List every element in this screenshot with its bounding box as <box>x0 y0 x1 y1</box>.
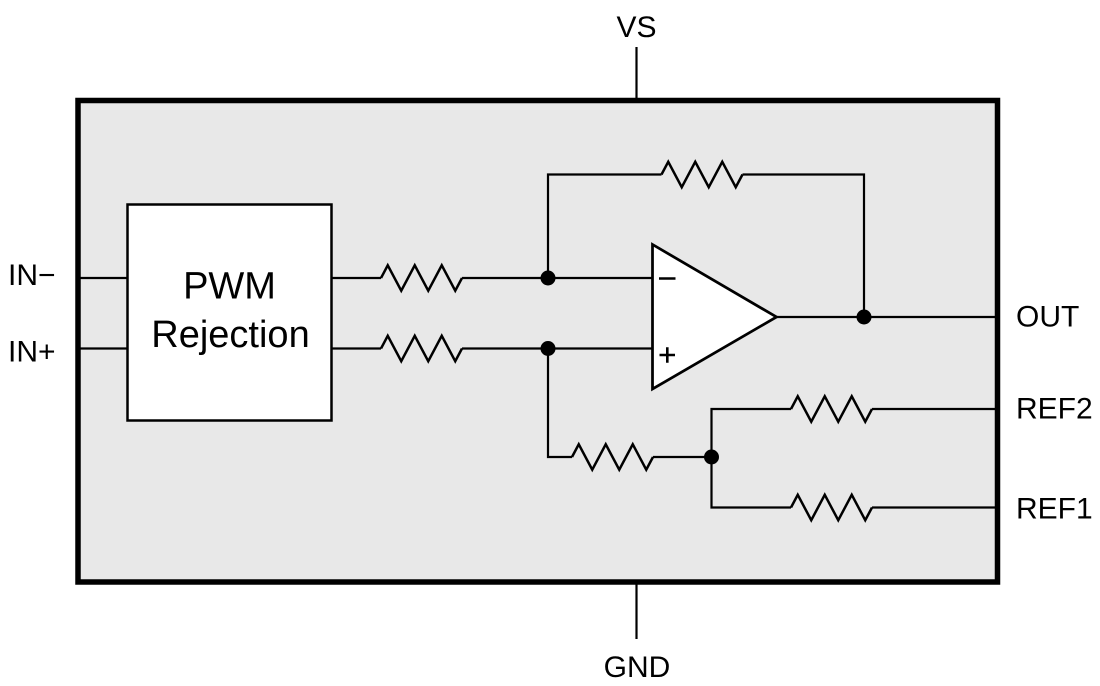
wire node C down to REF1 branch <box>712 457 792 508</box>
svg-text:REF2: REF2 <box>1016 393 1093 426</box>
op-amp U1 body <box>653 245 777 390</box>
svg-text:PWM: PWM <box>183 266 276 308</box>
wire PWM block to R2 <box>331 347 382 349</box>
node B junction dot (non-inverting input) <box>541 341 556 356</box>
wire R1 to node A <box>462 277 548 279</box>
output node junction dot <box>857 310 872 325</box>
IC boundary box <box>78 101 998 583</box>
node C junction dot (reference node) <box>704 450 719 465</box>
op-amp non-inverting input marker (plus) <box>660 347 676 362</box>
feedback resistor RF <box>662 162 743 188</box>
feedback wire from node A up and right <box>548 175 662 279</box>
svg-text:IN+: IN+ <box>8 336 56 369</box>
svg-text:VS: VS <box>616 11 656 44</box>
svg-text:Rejection: Rejection <box>151 314 309 356</box>
wire IN- to PWM block <box>78 277 129 279</box>
op-amp inverting input marker (minus) <box>659 277 676 280</box>
wire PWM block to R1 <box>331 277 382 279</box>
wire node C up to REF2 branch <box>712 409 792 457</box>
VS pin wire <box>635 47 637 100</box>
svg-text:IN−: IN− <box>8 259 56 292</box>
svg-text:GND: GND <box>604 651 671 684</box>
wire R2 to node B <box>462 347 548 349</box>
GND pin wire <box>635 582 637 639</box>
node A junction dot (inverting input) <box>541 271 556 286</box>
wire node B to op-amp non-inverting input <box>548 347 653 349</box>
svg-text:REF1: REF1 <box>1016 493 1093 526</box>
wire R4 to REF2 pin <box>872 408 995 410</box>
wire node B down to R3 <box>548 349 572 458</box>
PWM Rejection block box <box>128 205 332 421</box>
wire R5 to REF1 pin <box>872 506 995 508</box>
resistor R5 (REF1 branch) <box>791 495 872 521</box>
wire node A to op-amp inverting input <box>548 277 653 279</box>
wire R3 to node C <box>653 456 712 458</box>
feedback wire from RF down to output node <box>743 175 865 318</box>
wire op-amp output to OUT pin <box>777 316 996 318</box>
wire IN+ to PWM block <box>78 347 129 349</box>
resistor R2 (non-inverting input path) <box>381 336 462 362</box>
resistor R3 (reference summing) <box>572 444 653 470</box>
resistor R1 (inverting input path) <box>381 265 462 291</box>
resistor R4 (REF2 branch) <box>791 396 872 422</box>
svg-text:OUT: OUT <box>1016 301 1079 334</box>
